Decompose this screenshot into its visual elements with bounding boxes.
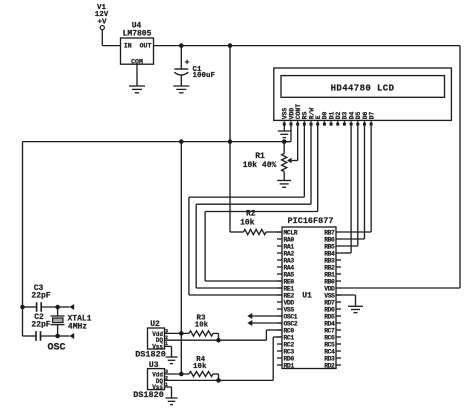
svg-text:RC3: RC3 [284,348,295,355]
power connector circle V1 [100,26,104,30]
ground under U3 [166,398,178,405]
node junction rail U3 Vdd [179,372,184,377]
svg-text:10k: 10k [193,363,207,371]
resistor R3 10k [189,315,213,336]
wire LCD VDD down [284,126,291,142]
wire U4 OUT +5V to right rail [154,45,461,47]
svg-text:HD44780 LCD: HD44780 LCD [331,83,395,93]
svg-text:RB7: RB7 [324,229,335,236]
wire LCD CONT to wiper [297,126,299,161]
svg-text:10k: 10k [240,218,255,227]
svg-text:+: + [184,58,189,68]
connector arrow XTAL bottom [69,333,74,339]
svg-text:DS1820: DS1820 [135,350,166,360]
node junction C1 on OUT wire [179,43,184,48]
node junction rail U2 Vdd [179,331,184,336]
svg-text:RD4: RD4 [324,320,335,327]
wire LCD D7 to PIC RB7 [341,126,371,232]
svg-text:RD1: RD1 [284,362,295,369]
ground under LCD VSS [278,131,291,138]
svg-text:RB0: RB0 [324,278,335,285]
svg-text:22pF: 22pF [31,292,50,301]
node junction pot/topwire [282,139,287,144]
label DS1820 U2 [135,350,166,360]
node junction +5 rail on OUT wire [228,43,233,48]
svg-text:VDD: VDD [284,299,295,306]
label DS1820 U3 [133,390,164,400]
wire V1 to regulator IN [102,30,120,46]
resistor R4 10k [189,356,213,377]
svg-text:RB4: RB4 [324,250,335,257]
LCD display inner box [281,76,445,98]
wire pot top [283,142,285,154]
svg-text:RD7: RD7 [324,299,335,306]
power source V1 +V label [95,4,109,27]
wire U4 COM to ground [136,64,138,86]
svg-text:D7: D7 [368,111,375,119]
svg-text:RB5: RB5 [324,243,335,250]
PIC pin labels [284,229,336,369]
svg-text:RC0: RC0 [284,327,295,334]
wire LCD R/W to PIC RE1 [196,126,311,288]
svg-text:RD6: RD6 [324,306,335,313]
voltage regulator U4 LM7805 box [121,22,154,66]
wire LCD D4 to PIC RB4 [341,126,351,253]
svg-text:RC6: RC6 [324,334,335,341]
svg-text:RA4: RA4 [284,264,295,271]
wire crystal bottom arrow [58,335,70,337]
svg-text:22pF: 22pF [31,321,50,330]
wire R4 to DQ [213,374,219,380]
svg-text:RB1: RB1 [324,271,335,278]
svg-text:RB2: RB2 [324,264,335,271]
node junction crystal bottom [55,334,60,339]
wire +5V rail x230 [230,46,244,232]
svg-text:RC2: RC2 [284,341,295,348]
svg-text:OSC1: OSC1 [284,313,298,320]
LCD pin stubs and pads [283,120,373,125]
microcontroller U1 PIC16F877 box [282,216,336,369]
svg-text:10k: 10k [195,321,209,329]
LCD title text [331,83,395,93]
svg-text:U2: U2 [150,320,160,329]
wire pot bottom [283,172,285,181]
svg-text:DS1820: DS1820 [133,390,164,400]
connector arrow XTAL top [69,304,74,310]
svg-text:RC4: RC4 [324,348,335,355]
LCD module HD44780 outer box [274,68,452,120]
label OSC [47,343,65,354]
svg-text:RD2: RD2 [324,362,335,369]
ground under C1 [173,86,189,93]
svg-text:OUT: OUT [140,43,152,50]
wire U2 DQ to PIC RC0 [165,330,283,340]
svg-text:LM7805: LM7805 [123,30,152,39]
wire U3 DQ to PIC RC1 [165,337,283,380]
crystal XTAL1 4MHz [51,307,92,336]
node junction crystal top [55,305,60,310]
pot wiper arrow [287,158,298,164]
svg-text:RA2: RA2 [284,250,295,257]
connector arrow OSC1 PIC [247,313,282,319]
wire R2 to MCLR [266,231,282,233]
ground under U2 [166,357,178,364]
svg-text:RB3: RB3 [324,257,335,264]
svg-text:VSS: VSS [284,306,295,313]
wire LCD RS to PIC RE2 [189,126,304,295]
wire U3 Vdd [165,373,190,375]
potentiometer R1 10k 40% [243,152,287,172]
svg-text:RA5: RA5 [284,271,295,278]
wire crystal top arrow [58,306,70,308]
wire R3 to DQ [213,333,219,340]
wire DS1820 vdd rail [180,142,182,374]
wire U2 Vss to ground [165,346,172,357]
node junction C1 rail/topwire [179,139,184,144]
svg-text:U3: U3 [149,361,159,370]
wire PIC VSS right [336,295,356,306]
capacitor C2 22pF [23,313,58,341]
wire LCD VSS down [283,126,285,131]
temperature sensor U3 DS1820 box [148,361,169,391]
svg-text:RA3: RA3 [284,257,295,264]
svg-text:VDD: VDD [324,285,335,292]
svg-text:U1: U1 [302,292,312,301]
node junction R3 DQ [216,338,221,343]
svg-text:100uF: 100uF [193,72,216,80]
svg-text:RE2: RE2 [284,292,295,299]
svg-text:OSC2: OSC2 [284,320,298,327]
svg-text:4MHz: 4MHz [68,323,87,332]
svg-text:10k 40%: 10k 40% [243,161,277,170]
svg-text:VSS: VSS [324,292,335,299]
wire U2 Vdd [165,332,190,334]
wire left rail [22,142,24,336]
svg-text:RD0: RD0 [284,355,295,362]
resistor R2 10k [240,210,266,235]
wire VDD net horizontal [23,141,291,143]
svg-text:R1: R1 [255,152,265,161]
ground under U4 COM [129,86,145,93]
LCD pin labels [282,104,376,120]
svg-text:RC5: RC5 [324,341,335,348]
svg-text:RC7: RC7 [324,327,335,334]
capacitor C1 100uF electrolytic [174,46,215,86]
svg-text:RD5: RD5 [324,313,335,320]
wire U3 Vss to ground [165,387,172,398]
ground under pot R1 [277,181,291,188]
wire +5V right rail down [459,46,461,288]
wire LCD D6 to PIC RB6 [341,126,364,239]
svg-text:PIC16F877: PIC16F877 [288,216,334,226]
svg-text:RD3: RD3 [324,355,335,362]
wire +5V bottom to PIC VDD right [341,287,460,289]
svg-text:RB6: RB6 [324,236,335,243]
svg-text:MCLR: MCLR [284,229,298,236]
svg-text:OSC: OSC [47,343,65,354]
svg-text:RC1: RC1 [284,334,295,341]
node junction rail/topwire [228,139,233,144]
svg-text:R2: R2 [246,210,256,219]
node junction R4 DQ [216,378,221,383]
capacitor C3 22pF [23,284,58,312]
wire LCD E to PIC RE0 [205,126,318,281]
ground PIC VSS right [348,306,363,312]
connector arrow OSC2 PIC [247,320,282,326]
wire LCD D5 to PIC RB5 [341,126,358,246]
svg-text:RE1: RE1 [284,285,295,292]
node junction left rail C3 [20,305,25,310]
svg-text:IN: IN [124,43,132,50]
temperature sensor U2 DS1820 box [148,320,169,351]
svg-text:RA1: RA1 [284,243,295,250]
svg-text:RA0: RA0 [284,236,295,243]
svg-text:RE0: RE0 [284,278,295,285]
PIC pin stubs [277,232,341,365]
